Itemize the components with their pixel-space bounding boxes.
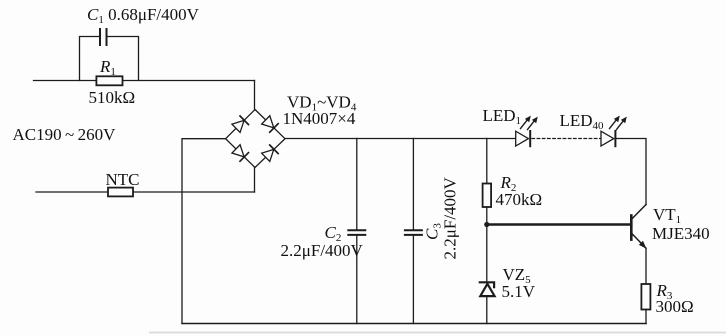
wire (dashed LED string) bbox=[532, 138, 601, 140]
wire bbox=[254, 81, 256, 111]
wire (emitter to R3) bbox=[645, 248, 647, 284]
LED1 light arrows bbox=[521, 116, 538, 130]
label AC input bbox=[13, 125, 117, 144]
label VT1 type bbox=[652, 224, 710, 243]
label VZ5 value bbox=[502, 282, 536, 301]
scan artifact line bbox=[150, 332, 726, 334]
diode VD4 (lower-right) bbox=[262, 145, 279, 162]
wire (bottom bus) bbox=[182, 323, 646, 325]
wire bbox=[645, 310, 647, 324]
label C3 bbox=[423, 223, 444, 240]
svg-text:2.2μF/400V: 2.2μF/400V bbox=[281, 241, 364, 260]
wire (positive rail) bbox=[285, 138, 516, 140]
LED40 bbox=[601, 131, 615, 146]
wire (bridge minus to left bus) bbox=[182, 139, 226, 324]
svg-text:5.1V: 5.1V bbox=[502, 282, 536, 301]
resistor R1 bbox=[96, 76, 122, 85]
label VT1 bbox=[653, 205, 681, 226]
label R2 bbox=[500, 173, 517, 194]
svg-text:LED1: LED1 bbox=[483, 106, 522, 127]
label VZ5 bbox=[503, 265, 532, 286]
label VD1~VD4 bbox=[287, 93, 357, 114]
LED40 light arrows bbox=[610, 116, 627, 130]
label R3 value bbox=[656, 297, 694, 316]
diode VD3 (lower-left) bbox=[232, 145, 249, 162]
svg-text:C1 0.68μF/400V: C1 0.68μF/400V bbox=[87, 5, 200, 26]
wire bbox=[254, 167, 256, 192]
wire (C2 branch) bbox=[356, 139, 358, 231]
wire bbox=[34, 80, 255, 82]
svg-text:NTC: NTC bbox=[106, 170, 140, 189]
capacitor C3 bbox=[405, 230, 422, 235]
svg-text:470kΩ: 470kΩ bbox=[496, 190, 543, 209]
wire bbox=[80, 37, 100, 81]
zener diode VZ5 bbox=[480, 282, 495, 296]
diode VD1 (upper-left) bbox=[232, 116, 249, 133]
resistor R2 bbox=[483, 184, 492, 208]
wire bbox=[486, 296, 488, 323]
wire bbox=[412, 235, 414, 323]
svg-text:AC190 ~ 260V: AC190 ~ 260V bbox=[13, 125, 117, 144]
label LED40 bbox=[560, 111, 605, 132]
wire bbox=[356, 235, 358, 323]
transistor VT1 bbox=[631, 205, 646, 249]
label NTC bbox=[106, 170, 140, 189]
label C1 value bbox=[87, 5, 200, 26]
label C3 value bbox=[441, 176, 460, 259]
wire bbox=[108, 37, 139, 81]
svg-text:MJE340: MJE340 bbox=[652, 224, 710, 243]
label R1 value bbox=[89, 88, 136, 107]
label R2 value bbox=[496, 190, 543, 209]
node (junction dot) bbox=[484, 222, 489, 227]
label C2 value bbox=[281, 241, 364, 260]
bridge rectifier frame bbox=[226, 110, 285, 168]
capacitor C1 bbox=[100, 29, 107, 45]
label C2 bbox=[325, 223, 342, 244]
label R3 bbox=[656, 281, 673, 302]
wire bbox=[36, 191, 255, 193]
label LED1 bbox=[483, 106, 522, 127]
resistor R3 bbox=[641, 284, 650, 310]
svg-text:2.2μF/400V: 2.2μF/400V bbox=[441, 176, 460, 259]
capacitor C2 bbox=[348, 230, 365, 235]
wire bbox=[616, 139, 646, 205]
svg-text:510kΩ: 510kΩ bbox=[89, 88, 136, 107]
wire (C3 branch) bbox=[412, 139, 414, 231]
label R1 bbox=[99, 57, 116, 78]
wire (base, bold) bbox=[487, 223, 632, 226]
wire bbox=[486, 207, 488, 282]
thermistor NTC bbox=[108, 188, 133, 197]
diode VD2 (upper-right) bbox=[262, 116, 279, 133]
label VD value 1N4007x4 bbox=[283, 109, 356, 128]
wire (R2 branch top) bbox=[486, 139, 488, 184]
svg-text:300Ω: 300Ω bbox=[656, 297, 694, 316]
LED1 bbox=[516, 131, 531, 146]
svg-text:1N4007×4: 1N4007×4 bbox=[283, 109, 356, 128]
